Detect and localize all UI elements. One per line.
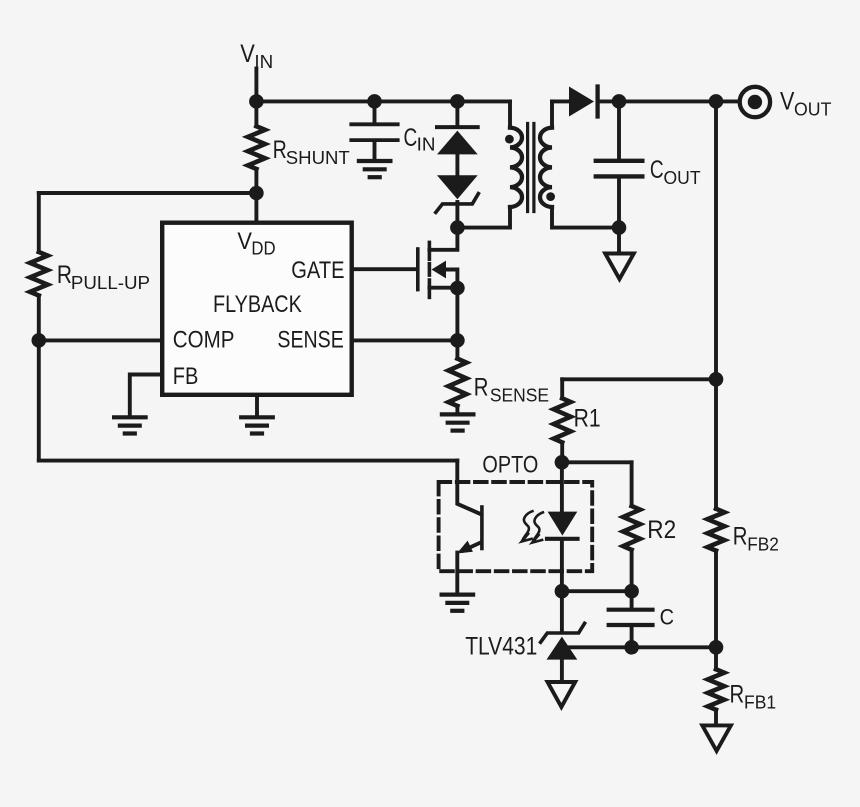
svg-text:FB1: FB1 [744, 692, 776, 713]
shunt-reg TLV431 anode triangle [547, 637, 578, 660]
svg-text:R: R [474, 373, 489, 402]
label C [660, 606, 674, 630]
junction VIN / RSHUNT top [249, 94, 264, 109]
transistor Q1 gate bar [416, 249, 420, 290]
svg-text:OUT: OUT [664, 168, 701, 189]
label RSHUNT [273, 136, 350, 168]
svg-text:SENSE: SENSE [277, 325, 343, 352]
resistor RFB1 [708, 669, 724, 710]
pin label SENSE [277, 325, 343, 352]
resistor RSENSE [448, 340, 466, 412]
wire LED cathode to R2 bottom [562, 589, 632, 593]
diode D1 snubber (triangle) [437, 131, 478, 155]
wire opto emitter to ground [455, 553, 459, 593]
label VOUT [780, 87, 831, 120]
svg-text:IN: IN [417, 133, 436, 154]
wire snubber top lead [455, 101, 459, 127]
wire FB pin lead [130, 375, 161, 416]
capacitor C [609, 591, 653, 647]
junction COMP node [32, 333, 47, 348]
svg-text:C: C [660, 606, 674, 630]
junction COUT top [612, 94, 627, 109]
wire COMP pin lead [39, 338, 161, 342]
resistor RPULL-UP [30, 193, 48, 340]
junction LED cathode node [555, 584, 570, 599]
resistor RSHUNT [248, 101, 265, 193]
wire top rail right [600, 99, 739, 103]
svg-text:SENSE: SENSE [490, 385, 549, 406]
wire VIN lead [254, 69, 258, 102]
shunt-reg TLV431 bent cathode bar [541, 623, 585, 642]
wire SENSE pin lead [352, 338, 457, 342]
junction SENSE node [450, 333, 465, 348]
svg-text:COMP: COMP [173, 326, 235, 353]
opto phototransistor emitter arrow [457, 541, 473, 554]
junction CIN top [367, 94, 382, 109]
resistor RFB2 [708, 509, 725, 551]
junction C bottom / REF wire [624, 640, 639, 655]
label R2 [647, 516, 676, 544]
svg-text:C: C [404, 124, 418, 152]
svg-text:OPTO: OPTO [482, 451, 538, 478]
opto LED anode lead [560, 462, 564, 511]
zener Z1 snubber (bent cathode bar) [436, 194, 479, 213]
diode DOUT (cathode bar) [595, 87, 599, 117]
wire LED node to R2 [562, 460, 632, 464]
wire right rail upper [714, 101, 718, 508]
label RPULL-UP [57, 260, 150, 293]
transistor Q1 body stub [445, 270, 457, 289]
zener Z1 snubber (triangle) [437, 175, 478, 199]
svg-text:R: R [273, 136, 287, 164]
terminal VOUT center dot [748, 95, 762, 109]
wire COUT ground lead [617, 228, 621, 254]
node VIN label [240, 40, 273, 72]
junction snubber top [450, 94, 465, 109]
ground under IC bottom pin [241, 417, 273, 433]
junction COUT bottom / secondary return [612, 220, 627, 235]
wire snubber bottom lead [455, 202, 459, 228]
pin label GATE [291, 256, 344, 283]
svg-text:GATE: GATE [291, 256, 344, 283]
svg-text:DD: DD [251, 238, 275, 259]
ground under TLV431 (chassis triangle) [548, 682, 576, 707]
wire GATE pin lead [352, 267, 416, 271]
pin label FB [173, 362, 199, 389]
opto LED cathode bar [547, 537, 578, 541]
ground under RFB1 (chassis triangle) [702, 725, 731, 751]
svg-text:R: R [57, 260, 72, 288]
label TLV431 [465, 632, 537, 660]
diode D1 snubber (cathode bar) [437, 125, 478, 129]
transformer T1 core [528, 124, 534, 212]
transistor Q1 body arrow [432, 261, 447, 279]
wire VDD pin lead [254, 193, 258, 221]
wire left rail down [37, 340, 41, 460]
capacitor CIN [351, 101, 397, 158]
wire RFB1 ground lead [714, 710, 718, 726]
label RFB1 [730, 679, 777, 712]
optocoupler dashed box [439, 482, 593, 571]
opto light arrow 1 [522, 511, 533, 541]
svg-text:C: C [650, 156, 664, 184]
transformer T1 secondary winding [540, 101, 619, 227]
svg-text:FLYBACK: FLYBACK [213, 290, 302, 317]
svg-text:FB: FB [173, 362, 199, 389]
wire REF node [566, 645, 716, 649]
label RFB2 [733, 522, 779, 555]
wire TLV431 anode lead [560, 660, 564, 682]
svg-text:R2: R2 [647, 516, 676, 544]
label FLYBACK [213, 290, 302, 317]
junction RSHUNT bottom / VDD node [249, 186, 264, 201]
transformer T1 secondary phase dot [546, 192, 555, 201]
wire IC bottom pin [255, 397, 259, 416]
transformer T1 primary phase dot [505, 135, 514, 144]
transistor Q1 source stub [429, 286, 457, 290]
svg-text:SHUNT: SHUNT [286, 147, 350, 168]
terminal VOUT ring [740, 87, 770, 117]
opto light arrow 2 [532, 512, 543, 542]
pin label VDD [237, 227, 275, 259]
junction primary bottom node [450, 220, 465, 235]
ground under opto emitter [442, 595, 474, 611]
opto phototransistor base bar [480, 507, 484, 549]
ground under COUT (chassis triangle) [605, 254, 634, 280]
wire top rail left [256, 99, 510, 103]
svg-text:PULL-UP: PULL-UP [71, 272, 150, 293]
svg-text:OUT: OUT [794, 99, 831, 119]
ground under RSENSE [442, 414, 474, 430]
capacitor COUT [596, 101, 643, 227]
transistor Q1 drain stub [429, 228, 457, 250]
label COUT [650, 156, 701, 189]
wire between D1 and Z1 [455, 154, 459, 175]
label RSENSE [474, 373, 549, 406]
resistor R2 [623, 462, 640, 591]
pin label COMP [173, 326, 235, 353]
wire right rail middle [714, 551, 718, 670]
ground under CIN [359, 161, 391, 177]
opto LED cathode lead [560, 541, 564, 591]
ground under FB pin [114, 417, 146, 433]
resistor R1 [554, 379, 571, 462]
svg-text:R: R [733, 522, 748, 551]
label OPTO [482, 451, 538, 478]
wire COMP to opto collector [39, 459, 458, 463]
svg-text:TLV431: TLV431 [465, 632, 537, 660]
svg-text:R: R [730, 679, 745, 708]
op-amp/IC U1 FLYBACK box [162, 223, 352, 395]
junction R2 bottom node [624, 584, 639, 599]
junction Q1 source/body [450, 281, 465, 296]
wire secondary top lead [552, 99, 569, 103]
junction REF node on right rail [709, 640, 724, 655]
svg-text:FB2: FB2 [747, 534, 779, 555]
junction VOUT node [709, 94, 724, 109]
opto phototransistor collector [457, 461, 480, 514]
junction R1 tap on right rail [709, 372, 724, 387]
transistor Q1 channel bar [428, 242, 432, 297]
svg-text:V: V [780, 87, 795, 115]
transformer T1 primary winding [457, 101, 522, 227]
svg-text:V: V [237, 227, 252, 254]
opto LED triangle [548, 512, 578, 536]
wire TLV431 cathode lead [560, 591, 564, 630]
wire upper-left rail [39, 191, 257, 195]
wire Q1 source to SENSE [455, 288, 459, 340]
wire R1 top rail [562, 377, 716, 381]
junction opto LED top node [555, 455, 570, 470]
label CIN [404, 124, 436, 155]
svg-text:R1: R1 [574, 404, 601, 432]
svg-text:V: V [240, 40, 255, 68]
label R1 [574, 404, 601, 432]
opto phototransistor emitter [463, 542, 481, 550]
diode DOUT (triangle) [569, 87, 594, 117]
